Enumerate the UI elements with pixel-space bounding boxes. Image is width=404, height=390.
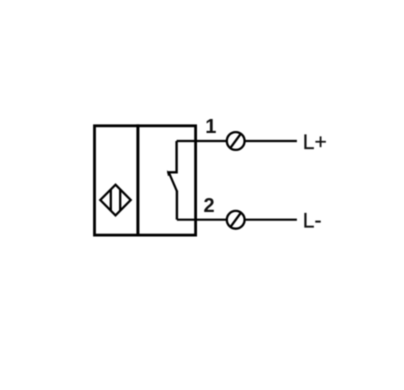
svg-text:L+: L+ [303,131,327,154]
svg-text:1: 1 [205,116,216,138]
svg-text:2: 2 [204,195,215,217]
svg-text:L-: L- [303,210,322,233]
